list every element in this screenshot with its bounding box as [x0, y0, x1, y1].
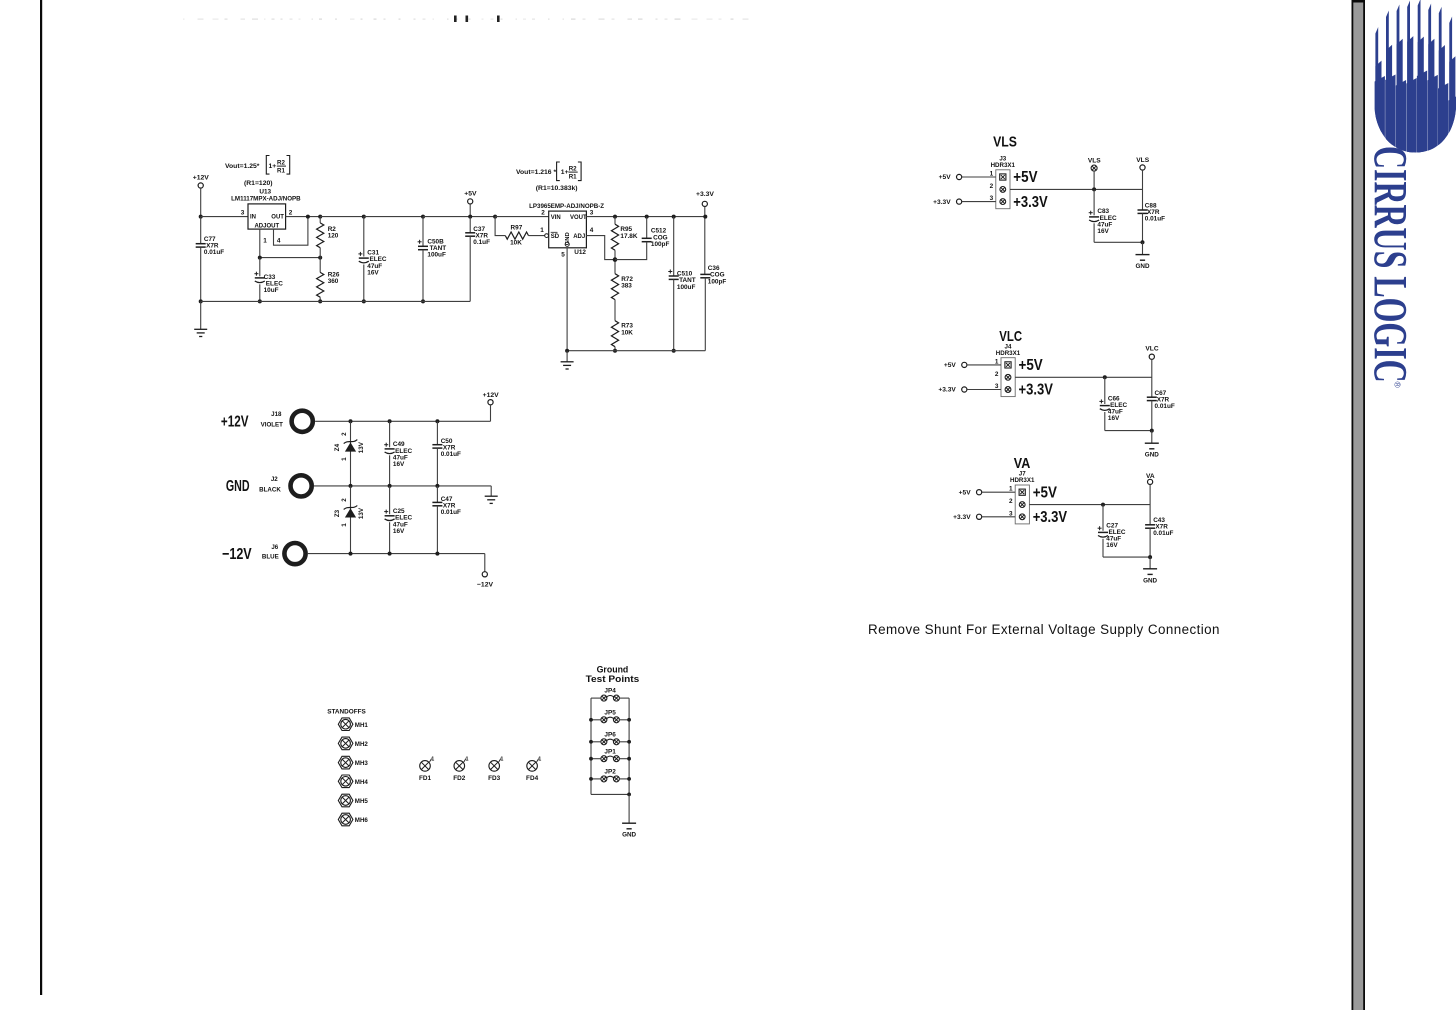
svg-text:VIN: VIN: [551, 215, 561, 221]
svg-text:Test Points: Test Points: [586, 674, 640, 685]
wire C37 to bottom rail: [469, 236, 471, 301]
svg-text:16V: 16V: [1106, 542, 1118, 549]
svg-text:HDR3X1: HDR3X1: [996, 350, 1021, 357]
wire GND rail: [314, 485, 491, 487]
svg-text:GND: GND: [1143, 577, 1157, 584]
svg-text:SD: SD: [551, 234, 560, 240]
svg-text:2: 2: [995, 371, 999, 378]
left page border: [40, 0, 42, 995]
ground VLS: [1136, 254, 1150, 256]
svg-text:CIRRUS LOGIC: CIRRUS LOGIC: [1364, 146, 1417, 383]
wire C33 top: [259, 258, 261, 277]
wire rail to U13 IN: [201, 216, 248, 218]
svg-text:+3.3V: +3.3V: [696, 191, 714, 198]
standoff MH1: [338, 718, 353, 731]
svg-text:4: 4: [590, 227, 594, 234]
svg-text:1: 1: [466, 757, 469, 763]
svg-text:−12V: −12V: [477, 582, 494, 589]
svg-text:VA: VA: [1014, 455, 1031, 472]
svg-text:Z3: Z3: [334, 509, 341, 517]
svg-text:100uF: 100uF: [677, 284, 696, 291]
wire left vertical to C77: [200, 217, 202, 244]
svg-text:J18: J18: [271, 411, 282, 418]
svg-text:2: 2: [341, 432, 348, 436]
node R95 top: [613, 215, 617, 219]
svg-text:2: 2: [289, 210, 293, 217]
wire +3.3V down to C36: [704, 207, 706, 275]
svg-text:MH4: MH4: [355, 779, 369, 786]
svg-text:2: 2: [1009, 498, 1013, 505]
svg-text:383: 383: [621, 283, 632, 290]
svg-text:10K: 10K: [621, 329, 633, 336]
svg-text:GND: GND: [622, 832, 636, 839]
svg-text:+5V: +5V: [1013, 169, 1038, 186]
capacitor C77: [196, 243, 206, 245]
wire to C37: [469, 217, 471, 233]
wire R95 to ADJ junction: [614, 250, 616, 274]
wire down to ground: [200, 301, 202, 329]
wire down to -12V terminal: [484, 554, 486, 572]
svg-text:5: 5: [561, 252, 565, 259]
svg-text:R97: R97: [511, 225, 523, 232]
svg-text:2: 2: [541, 210, 545, 217]
standoff MH5: [338, 794, 353, 807]
svg-text:3: 3: [590, 210, 594, 217]
svg-text:LM1117MPX-ADJ/NOPB: LM1117MPX-ADJ/NOPB: [231, 195, 301, 202]
wire rail to +5V node: [423, 216, 495, 218]
standoff MH3: [338, 756, 353, 769]
pin 5 wire U12 GND: [566, 248, 568, 351]
capacitor C50B tantalum: [418, 245, 428, 247]
svg-text:FD4: FD4: [526, 775, 539, 782]
svg-text:®: ®: [1393, 382, 1403, 389]
standoff MH4: [338, 775, 353, 788]
node VLC junction: [1103, 375, 1107, 379]
svg-text:1+: 1+: [561, 169, 569, 176]
svg-text:HDR3X1: HDR3X1: [991, 162, 1016, 169]
svg-text:+12V: +12V: [221, 413, 249, 430]
wire +12V rail: [315, 420, 490, 422]
capacitor C83 electrolytic: [1093, 189, 1095, 215]
zener Z4 13V: [349, 419, 353, 423]
wire test point left rail: [590, 698, 592, 794]
svg-text:JP6: JP6: [604, 731, 616, 738]
wire C36 to bottom rail: [704, 278, 706, 351]
capacitor C27 electrolytic: [1102, 505, 1104, 531]
ground: [194, 328, 207, 330]
svg-text:+5V: +5V: [959, 489, 972, 496]
standoff MH2: [338, 737, 353, 750]
svg-text:100pF: 100pF: [651, 241, 670, 248]
capacitor C36: [700, 273, 710, 275]
wire C33 to bottom rail: [259, 284, 261, 301]
wire R26 to bottom rail: [319, 297, 321, 301]
svg-text:VLC: VLC: [1145, 346, 1158, 353]
svg-text:Remove Shunt For External Volt: Remove Shunt For External Voltage Supply…: [868, 622, 1220, 637]
svg-text:+3.3V: +3.3V: [1019, 382, 1054, 399]
svg-text:Vout=1.216 *: Vout=1.216 *: [516, 169, 556, 176]
wire C77 to bottom rail: [200, 248, 202, 302]
svg-text:IN: IN: [250, 215, 256, 221]
svg-text:1: 1: [500, 757, 503, 763]
svg-text:VOUT: VOUT: [570, 215, 587, 221]
svg-text:3: 3: [241, 210, 245, 217]
svg-text:0.01uF: 0.01uF: [441, 451, 461, 458]
svg-text:16V: 16V: [393, 461, 405, 468]
svg-text:+5V: +5V: [944, 362, 957, 369]
svg-text:1+: 1+: [269, 163, 277, 170]
wire rail to C512: [646, 217, 648, 239]
svg-text:R1: R1: [277, 168, 285, 175]
node C31 top: [362, 215, 366, 219]
wire C31 top lead: [363, 217, 365, 257]
wire rail to R2: [319, 217, 321, 223]
svg-text:+5V: +5V: [1033, 484, 1058, 501]
svg-text:VLS: VLS: [1088, 157, 1101, 164]
svg-text:ADJOUT: ADJOUT: [254, 224, 279, 230]
inverter bubble on SD: [545, 234, 549, 238]
wire VLC bottom: [1105, 430, 1152, 432]
wire to gnd VLS: [1142, 242, 1144, 254]
svg-text:(R1=120): (R1=120): [244, 180, 273, 187]
fiducial FD1: [420, 761, 431, 772]
svg-text:(R1=10.383k): (R1=10.383k): [536, 185, 578, 192]
svg-text:JP4: JP4: [604, 688, 616, 695]
op-amp U13 LM1117 regulator box: [248, 204, 286, 229]
node R2 top: [318, 215, 322, 219]
resistor R72: [611, 274, 618, 300]
op-amp U12 LP3965 regulator box: [549, 211, 587, 248]
resistor R2: [317, 223, 324, 248]
capacitor C66 electrolytic: [1104, 377, 1106, 404]
svg-text:BLACK: BLACK: [259, 486, 281, 493]
svg-text:VLS: VLS: [1136, 157, 1149, 164]
svg-text:Vout=1.25*: Vout=1.25*: [225, 163, 260, 170]
wire test point bottom: [591, 793, 629, 795]
ground VLC: [1145, 442, 1159, 444]
wire -12V rail: [308, 553, 485, 555]
svg-text:MH6: MH6: [355, 817, 369, 824]
svg-text:100pF: 100pF: [708, 278, 727, 285]
wire pin2 output: [1029, 504, 1150, 506]
svg-text:FD2: FD2: [453, 775, 466, 782]
svg-text:1: 1: [540, 227, 544, 234]
svg-text:Z4: Z4: [334, 443, 341, 451]
node C510 top: [672, 215, 676, 219]
svg-text:FD1: FD1: [419, 775, 432, 782]
standoff MH6: [338, 813, 353, 826]
wire ADJ to R2 junction: [260, 257, 320, 259]
pin 4 wire U13 OUT sense: [274, 217, 308, 246]
svg-text:+3.3V: +3.3V: [953, 514, 971, 521]
wire VA bottom: [1103, 556, 1150, 558]
svg-text:360: 360: [328, 278, 339, 285]
wire +5V to rail: [469, 204, 471, 217]
wire C50B top lead: [422, 217, 424, 247]
svg-text:0.01uF: 0.01uF: [441, 509, 461, 516]
svg-text:R2: R2: [277, 160, 285, 167]
wire pin2 output: [1015, 376, 1152, 378]
fiducial FD4: [527, 761, 538, 772]
node R97 branch: [493, 215, 497, 219]
bottom rail 1: [201, 300, 471, 302]
ground 2: [561, 361, 574, 363]
svg-text:MH3: MH3: [355, 760, 369, 767]
right page edge bar: [1352, 0, 1365, 1010]
wire to ground 2: [566, 351, 568, 362]
wire terminal down to rail: [490, 405, 492, 422]
node OUT sense on rail: [306, 215, 310, 219]
wire R97 to SD pin: [529, 235, 545, 237]
svg-text:+3.3V: +3.3V: [1013, 194, 1048, 211]
capacitor C47: [436, 486, 438, 503]
wire U12 VOUT to rail: [586, 216, 705, 218]
zener Z3 13V: [350, 486, 352, 554]
svg-text:GND: GND: [1145, 452, 1159, 459]
capacitor C510 tantalum: [669, 275, 679, 277]
node C512 top: [645, 215, 649, 219]
ground jacks: [485, 495, 498, 497]
svg-text:1: 1: [431, 757, 434, 763]
svg-text:10K: 10K: [510, 240, 522, 247]
svg-text:16V: 16V: [367, 269, 379, 276]
svg-text:100uF: 100uF: [427, 252, 446, 259]
wire pin2 output: [1010, 188, 1143, 190]
fiducial FD3: [489, 761, 500, 772]
svg-text:HDR3X1: HDR3X1: [1010, 477, 1035, 484]
wire C512 to ADJ junction: [615, 242, 647, 260]
capacitor C25 electrolytic: [389, 486, 391, 514]
node VA junction: [1101, 503, 1105, 507]
svg-text:J6: J6: [271, 544, 278, 551]
svg-text:GND: GND: [565, 232, 571, 245]
wire VLS bottom: [1094, 241, 1142, 243]
svg-text:10uF: 10uF: [264, 287, 279, 294]
ground test points: [622, 822, 636, 824]
svg-text:+12V: +12V: [483, 392, 500, 399]
svg-text:U12: U12: [574, 249, 586, 256]
wire rail to U12 VIN: [495, 216, 549, 218]
svg-text:+12V: +12V: [193, 175, 210, 182]
svg-text:+5V: +5V: [939, 174, 952, 181]
svg-text:16V: 16V: [1108, 415, 1120, 422]
svg-text:JP2: JP2: [604, 769, 616, 776]
svg-text:120: 120: [328, 232, 339, 239]
wire R73 to bottom rail: [614, 347, 616, 351]
svg-text:−12V: −12V: [222, 546, 252, 563]
wire R2 to junction: [319, 248, 321, 273]
svg-text:1: 1: [538, 757, 541, 763]
svg-text:R2: R2: [569, 166, 577, 173]
capacitor C49 electrolytic: [388, 419, 392, 423]
capacitor C37: [465, 232, 475, 234]
bottom rail 2: [567, 350, 705, 352]
node ADJ net junction: [613, 257, 618, 262]
svg-text:+5V: +5V: [464, 190, 477, 197]
svg-text:MH5: MH5: [355, 798, 369, 805]
svg-text:GND: GND: [226, 478, 250, 495]
svg-text:13V: 13V: [358, 441, 365, 453]
svg-text:J2: J2: [271, 476, 278, 483]
svg-text:1: 1: [341, 523, 348, 527]
svg-text:VLS: VLS: [993, 134, 1017, 151]
resistor R97: [505, 232, 528, 239]
resistor R26: [317, 272, 324, 297]
wire rail to C50B: [364, 216, 423, 218]
wire rail R2 to C31: [320, 216, 364, 218]
capacitor C50: [435, 419, 439, 423]
capacitor C33 electrolytic: [255, 277, 265, 279]
clipped title text remnants: [183, 16, 749, 23]
resistor R73: [611, 321, 618, 347]
node GND pin on rail: [565, 349, 569, 353]
svg-text:1: 1: [263, 237, 267, 244]
node ADJ junction: [318, 256, 322, 260]
capacitor C512: [642, 237, 652, 239]
resistor R95: [611, 224, 618, 250]
svg-text:13V: 13V: [358, 507, 365, 519]
svg-text:GND: GND: [1136, 263, 1150, 270]
svg-text:+3.3V: +3.3V: [1033, 509, 1068, 526]
capacitor C67: [1147, 396, 1157, 398]
svg-text:R1: R1: [569, 174, 577, 181]
capacitor C43: [1145, 524, 1155, 526]
svg-text:1: 1: [341, 457, 348, 461]
wire C50B to bottom rail: [422, 250, 424, 302]
svg-text:JP1: JP1: [604, 748, 616, 755]
svg-text:MH2: MH2: [355, 741, 369, 748]
svg-text:2: 2: [990, 183, 994, 190]
svg-text:4: 4: [277, 237, 281, 244]
wire branch down to R97: [495, 217, 505, 236]
svg-text:+3.3V: +3.3V: [933, 199, 951, 206]
svg-text:+3.3V: +3.3V: [938, 387, 956, 394]
svg-text:OUT: OUT: [271, 215, 284, 221]
pin 1 wire U13 ADJ: [259, 229, 261, 258]
wire C510 to bottom rail: [673, 279, 675, 350]
wire +12V to rail: [200, 188, 202, 217]
svg-text:0.01uF: 0.01uF: [1155, 403, 1175, 410]
svg-text:2: 2: [341, 498, 348, 502]
node C33 tap: [258, 256, 262, 260]
fiducial FD2: [454, 761, 465, 772]
ground VA: [1143, 568, 1157, 570]
svg-text:0.1uF: 0.1uF: [473, 239, 490, 246]
svg-text:16V: 16V: [1097, 228, 1109, 235]
wire GND to ground: [490, 486, 492, 496]
node VLS junction: [1092, 187, 1096, 191]
node +5V on rail: [468, 215, 472, 219]
wire rail to C510: [673, 217, 675, 276]
svg-text:+5V: +5V: [1019, 357, 1044, 374]
wire R72-R73: [614, 300, 616, 321]
wire U12 ADJ: [586, 236, 615, 260]
svg-text:FD3: FD3: [488, 775, 501, 782]
svg-text:0.01uF: 0.01uF: [1153, 530, 1173, 537]
node C50B top: [421, 215, 425, 219]
node bottom-left corner: [199, 299, 203, 303]
svg-text:16V: 16V: [393, 528, 405, 535]
svg-text:0.01uF: 0.01uF: [1145, 216, 1165, 223]
svg-text:MH1: MH1: [355, 722, 369, 729]
capacitor C31 electrolytic: [359, 257, 369, 259]
wire C31 to bottom rail: [363, 265, 365, 302]
svg-text:17.8K: 17.8K: [620, 233, 637, 240]
wire U13 OUT to rail: [286, 216, 321, 218]
svg-text:BLUE: BLUE: [262, 554, 279, 561]
capacitor C88: [1138, 209, 1148, 211]
wire test point right rail: [628, 698, 630, 794]
svg-text:JP5: JP5: [604, 709, 616, 716]
wire to gnd test points: [628, 794, 630, 823]
svg-text:0.01uF: 0.01uF: [204, 249, 224, 256]
svg-text:VIOLET: VIOLET: [261, 422, 284, 429]
svg-text:STANDOFFS: STANDOFFS: [327, 709, 366, 716]
wire rail to R95: [614, 217, 616, 225]
-12V terminal lower right: [482, 572, 487, 577]
node +12V rail corner: [199, 215, 203, 219]
svg-text:ADJ: ADJ: [573, 234, 585, 240]
